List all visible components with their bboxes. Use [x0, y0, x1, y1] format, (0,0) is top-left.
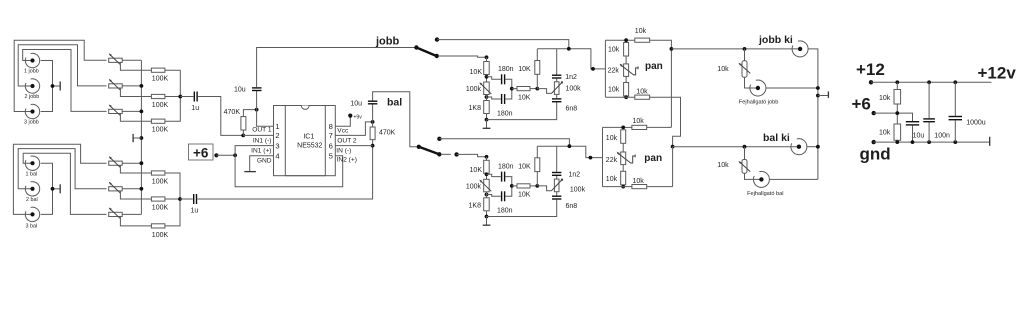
wire 10K to pot jobb: [486, 75, 488, 83]
capacitor 6n8 bal: [552, 196, 577, 210]
junction gnd 100n: [927, 140, 931, 144]
wire +6 rail: [874, 113, 913, 121]
wire 1u bal to IC in2- node: [197, 146, 372, 199]
svg-text:1 jobb: 1 jobb: [24, 69, 39, 75]
svg-text:3 bal: 3 bal: [26, 224, 38, 230]
wire 100K2 bal to sum: [165, 198, 180, 200]
resistor 470K feedback 2: [370, 127, 396, 140]
svg-text:100k: 100k: [570, 187, 586, 194]
svg-text:1: 1: [275, 122, 279, 131]
jack J5 "2 bal": [25, 182, 39, 203]
junction OUT2 node: [371, 120, 375, 124]
junction bypass join bal: [568, 144, 572, 148]
junction bus row1 bal: [140, 161, 144, 165]
resistor 10K upper right jobb: [518, 61, 540, 75]
junction tone input jobb: [485, 55, 489, 59]
terminal +12: [869, 80, 873, 84]
capacitor 100n supply: [923, 82, 950, 142]
wire pot2 bal wiper branch: [120, 191, 151, 199]
svg-text:10K: 10K: [470, 167, 483, 174]
wire out node to treble wiper jobb: [537, 89, 551, 94]
wire pot bottom to 180n bal: [487, 195, 501, 197]
wire pin6 to node: [335, 145, 372, 147]
svg-text:2: 2: [275, 131, 279, 140]
svg-text:100k: 100k: [466, 86, 482, 93]
svg-text:7: 7: [329, 131, 333, 140]
wire treble branch top jobb: [556, 49, 558, 75]
svg-text:10K: 10K: [518, 66, 531, 73]
wire 470K1 bottom lead: [242, 130, 244, 135]
junction pan input jobb: [591, 67, 595, 71]
jack J2 "2 jobb": [25, 79, 40, 100]
junction bypass join jobb: [567, 47, 571, 51]
svg-text:10u: 10u: [913, 132, 925, 139]
wire pot to 6n8 bal: [556, 192, 558, 196]
wire bal bus down: [672, 147, 674, 187]
wire bal ki shield: [807, 146, 818, 148]
switch SW2 lever: [419, 147, 439, 154]
svg-text:Vcc: Vcc: [337, 127, 349, 134]
svg-text:100K: 100K: [152, 76, 169, 83]
svg-text:10K: 10K: [518, 192, 531, 199]
junction bus row2 bal: [140, 187, 144, 191]
wire pan bottom rail jobb: [605, 96, 634, 98]
wire shield to chassis tap jobb: [53, 85, 60, 87]
svg-text:OUT 1: OUT 1: [252, 127, 272, 134]
junction gnd 10u: [911, 140, 915, 144]
junction pan chain bottom bal: [621, 185, 625, 189]
junction OUT1 node: [255, 108, 259, 112]
junction bal ki tap: [671, 145, 675, 149]
wire trimmer top jobb: [744, 49, 746, 61]
wire 10K upper leads jobb: [536, 49, 538, 89]
wire jack3 jobb to pot row1: [14, 40, 106, 111]
wire 10u bal to bal switch: [373, 92, 417, 147]
wire 100K3 bal to sum: [165, 199, 180, 226]
svg-text:10K: 10K: [470, 69, 483, 76]
wire gnd rail: [874, 141, 990, 143]
svg-text:+9v: +9v: [353, 115, 362, 121]
resistor 1K8 tone bal: [469, 198, 490, 211]
capacitor 10u jobb output: [234, 87, 262, 94]
wire shield bus bal jacks: [41, 163, 53, 214]
wire pot1 jobb to ground bus: [122, 59, 141, 61]
switch SW1 contact upper: [435, 37, 439, 41]
resistor 100K jobb 1: [151, 68, 168, 83]
switch SW1 lever: [416, 48, 436, 57]
junction shield bal: [51, 187, 55, 191]
ground symbol tone bal: [483, 217, 491, 226]
capacitor 1n2 jobb: [552, 74, 577, 81]
svg-text:100K: 100K: [152, 178, 169, 185]
resistor 100K bal 2: [151, 197, 168, 212]
wire pot3 bal wiper branch: [120, 217, 151, 226]
wire bypass jobb: [437, 40, 569, 49]
wire pan top rail jobb: [605, 39, 634, 41]
wire 10K to pot bal: [486, 173, 488, 179]
svg-text:Fejhallgató jobb: Fejhallgató jobb: [739, 99, 779, 105]
junction tone bottom jobb: [485, 118, 489, 122]
jack bal ki: [791, 139, 807, 155]
wire pot3 jobb to ground bus: [122, 110, 141, 112]
svg-text:Fejhallgató bal: Fejhallgató bal: [747, 191, 783, 197]
wire node to 10K jobb: [486, 57, 488, 61]
junction tone out jobb: [535, 87, 539, 91]
wire 10K to out node bal: [530, 185, 537, 187]
svg-text:10k: 10k: [717, 66, 729, 73]
wire tone bottom rail jobb: [487, 102, 557, 119]
wire out2 node to 10u bal: [372, 104, 374, 122]
wire switch to tone input jobb: [438, 56, 487, 57]
potentiometer 100k treble jobb: [552, 81, 582, 94]
svg-text:IN1 (+): IN1 (+): [251, 147, 271, 154]
wire 10u to gnd: [912, 126, 914, 143]
wire jack1 bal to pot row3: [23, 153, 106, 214]
wire 1K8 to bottom node jobb: [486, 114, 488, 120]
junction headphone tap jobb: [743, 47, 747, 51]
capacitor 180n bottom bal: [497, 191, 513, 214]
wire pot to 1K8 jobb: [486, 95, 488, 101]
svg-text:10k: 10k: [606, 176, 618, 183]
svg-text:5: 5: [329, 151, 333, 160]
resistor 100K bal 3: [151, 224, 168, 239]
jack headphone bal: [753, 171, 769, 187]
capacitor 180n bottom jobb: [497, 94, 513, 117]
wire 180n top to mid bal: [505, 177, 512, 186]
wire phone jobb shield: [766, 87, 818, 89]
svg-text:OUT 2: OUT 2: [337, 137, 357, 144]
junction IN2- node: [371, 144, 375, 148]
potentiometer 100k tone bal: [466, 179, 491, 192]
svg-text:10k: 10k: [608, 46, 620, 53]
svg-text:6n8: 6n8: [566, 106, 578, 113]
switch SW2 contact upper: [437, 137, 441, 141]
wire jack2 jobb to pot row2: [18, 45, 106, 86]
wire pan top rail bal: [603, 126, 632, 128]
wire pot3 bal to ground bus end: [122, 213, 141, 215]
wire phone bal shield: [770, 178, 818, 180]
svg-text:GND: GND: [257, 157, 272, 164]
junction tone input bal: [485, 155, 489, 159]
junction +6 divider: [895, 111, 899, 115]
wire shield to chassis tap bal: [53, 188, 60, 190]
svg-text:8: 8: [329, 122, 333, 131]
svg-text:IN2 (+): IN2 (+): [337, 157, 357, 164]
svg-text:6n8: 6n8: [566, 203, 578, 210]
junction tone mid bal: [510, 184, 514, 188]
junction +12 100n: [927, 80, 931, 84]
wire +6 node to pin3: [235, 146, 273, 156]
jack J1 "1 jobb": [24, 53, 40, 74]
wire jobb ki shield: [808, 49, 818, 180]
svg-text:10k: 10k: [879, 95, 891, 102]
switch SW2 contact lower: [437, 152, 441, 156]
wire pot to chain lower jobb: [625, 76, 627, 82]
potentiometer 100k tone jobb: [466, 82, 491, 95]
wire bus to chassis bar mid: [134, 137, 142, 139]
ground symbol tone jobb: [483, 120, 491, 129]
wire bypass bal: [439, 139, 569, 146]
chassis bar mid: [132, 134, 134, 142]
capacitor 10u bal output: [350, 100, 377, 107]
junction +12 1000u: [953, 80, 957, 84]
svg-text:NE5532: NE5532: [297, 143, 322, 150]
jack J3 "3 jobb": [24, 104, 40, 125]
svg-text:bal: bal: [387, 97, 402, 109]
terminal +6: [872, 111, 876, 115]
wire pin8 Vcc to +9v: [335, 116, 350, 127]
junction pot top jobb: [485, 75, 489, 79]
junction gnd 1000u: [953, 140, 957, 144]
wire chain upper to pot jobb: [625, 56, 627, 64]
wire trimmer to phone jack bal: [745, 173, 760, 179]
wire 470K2 bottom lead to pin6 node: [372, 140, 374, 146]
wire 180n bottom to mid bal: [505, 186, 512, 196]
wire node to 10K bal: [486, 157, 488, 161]
wire ground bus vertical: [140, 60, 142, 214]
resistor 10k pan lower jobb: [608, 83, 629, 97]
wire 100K3 jobb to sum: [165, 97, 180, 122]
wire trimmer to phone jack jobb: [745, 77, 756, 88]
capacitor 1u jobb: [191, 92, 199, 113]
junction tone out bal: [535, 184, 539, 188]
svg-text:10u: 10u: [350, 100, 362, 107]
resistor 470K feedback 1: [224, 109, 246, 130]
junction pan chain top bal: [621, 126, 625, 130]
box +6 supply tap: [189, 144, 214, 161]
op-amp IC1 notch: [301, 106, 309, 110]
wire 10K upper leads bal: [536, 146, 538, 186]
wire 1K8 to bottom node bal: [486, 211, 488, 217]
wire pot to 1K8 bal: [486, 192, 488, 198]
resistor 1K8 tone jobb: [469, 101, 490, 114]
junction bus row3 jobb: [140, 110, 144, 114]
resistor 10k divider upper: [879, 90, 901, 105]
wire pot1 bal wiper branch: [120, 165, 151, 173]
wire pot bottom to 180n jobb: [487, 97, 501, 99]
potentiometer P3 jobb (row3): [109, 105, 123, 116]
wire lever stub bal: [441, 153, 451, 155]
potentiometer P1 jobb (row1): [109, 53, 123, 64]
svg-text:1K8: 1K8: [469, 105, 482, 112]
junction summing jobb: [178, 95, 182, 99]
jack jobb ki: [792, 41, 808, 57]
svg-text:pan: pan: [644, 153, 662, 164]
junction pot bottom bal: [485, 193, 489, 197]
junction chassis tap out: [816, 94, 820, 98]
wire 180n bottom to mid jobb: [505, 89, 512, 99]
wire jack2 bal to pot row2: [18, 149, 106, 189]
capacitor 1000u supply: [949, 82, 986, 142]
terminal dot +6: [214, 153, 218, 157]
junction pan chain bottom jobb: [624, 95, 628, 99]
ground symbol IC: [244, 171, 256, 173]
potentiometer P5 bal (row2): [109, 182, 123, 193]
junction shield phone jobb: [816, 86, 820, 90]
wire 1n2 to pot bal: [556, 176, 558, 179]
chassis bar outputs: [827, 91, 829, 98]
potentiometer P6 bal (row3): [109, 208, 123, 219]
junction pot bottom jobb: [485, 95, 489, 99]
svg-text:10k: 10k: [635, 28, 647, 35]
resistor 10k pan upper jobb: [608, 43, 629, 57]
svg-text:10k: 10k: [879, 130, 891, 137]
junction tone bottom bal: [485, 215, 489, 219]
contact dot bal tone input: [454, 152, 458, 156]
svg-text:gnd: gnd: [860, 145, 891, 164]
wire chain upper to pot bal: [622, 143, 624, 152]
svg-text:+6: +6: [193, 146, 209, 161]
wire mid to 10K jobb: [512, 88, 517, 90]
svg-text:10K: 10K: [518, 94, 531, 101]
svg-text:jobb: jobb: [375, 36, 399, 48]
wire 1u jobb to IC in1-: [198, 97, 243, 136]
wire 10K to out node jobb: [530, 88, 537, 90]
svg-text:IN (-): IN (-): [336, 147, 351, 154]
wire 470K1 top lead to out1 node: [243, 110, 256, 117]
resistor 10K mid jobb: [517, 87, 531, 102]
potentiometer 22k pan jobb: [608, 64, 639, 77]
wire +6 to junction: [216, 154, 235, 156]
wire pin4 GND lead: [250, 156, 274, 172]
jack J6 "3 bal": [25, 207, 39, 229]
svg-text:10K: 10K: [518, 163, 531, 170]
svg-text:1n2: 1n2: [565, 74, 577, 81]
wire pot2 bal to ground bus: [122, 188, 141, 190]
jack headphone jobb: [750, 80, 766, 96]
resistor 10k pan bottom bal: [632, 178, 647, 189]
svg-text:1n2: 1n2: [569, 172, 581, 179]
wire pan top to jobb bus: [650, 40, 672, 127]
chassis bar bal inputs: [59, 184, 61, 193]
svg-text:1K8: 1K8: [469, 202, 482, 209]
svg-text:1u: 1u: [191, 105, 199, 112]
wire out node to treble wiper bal: [537, 186, 551, 191]
svg-text:100K: 100K: [152, 232, 169, 239]
svg-text:10k: 10k: [717, 162, 729, 169]
junction gnd divider: [895, 140, 899, 144]
wire pot1 jobb wiper branch: [120, 62, 151, 70]
svg-text:22k: 22k: [608, 67, 620, 74]
svg-text:IN1 (-): IN1 (-): [253, 137, 272, 144]
svg-text:2 jobb: 2 jobb: [25, 94, 40, 100]
svg-text:1u: 1u: [191, 208, 199, 215]
resistor 10k divider lower: [879, 124, 901, 140]
svg-text:1 bal: 1 bal: [26, 172, 38, 178]
capacitor 10u supply: [906, 121, 925, 139]
svg-text:3: 3: [275, 141, 279, 150]
svg-text:10k: 10k: [608, 86, 620, 93]
wire IN1- to pin2: [243, 134, 273, 136]
svg-text:10k: 10k: [636, 88, 648, 95]
wire pan bottom to bal bus: [650, 97, 681, 146]
wire out1 node to pin1: [257, 110, 274, 127]
svg-text:180n: 180n: [497, 110, 513, 117]
wire out1 node to 10u: [256, 91, 258, 110]
svg-text:100K: 100K: [152, 204, 169, 211]
svg-text:2 bal: 2 bal: [26, 197, 38, 203]
svg-text:100n: 100n: [934, 132, 950, 139]
capacitor 6n8 jobb: [552, 98, 577, 112]
wire jobb ki line: [671, 48, 798, 50]
wire tone out line jobb: [537, 49, 605, 69]
potentiometer 100k treble bal: [552, 179, 586, 194]
junction +12 divider: [895, 80, 899, 84]
capacitor 180n top jobb: [498, 66, 514, 84]
wire sum to 1u jobb: [180, 96, 193, 98]
pan block jobb left rail: [604, 40, 606, 97]
svg-text:22k: 22k: [606, 157, 618, 164]
wire jack1 jobb to pot row3: [23, 50, 107, 112]
svg-text:100K: 100K: [152, 127, 169, 134]
junction +6 node: [233, 153, 237, 157]
capacitor 1u bal: [191, 194, 199, 215]
wire pot to 6n8 jobb: [556, 94, 558, 98]
resistor 10K upper right bal: [518, 158, 540, 172]
wire bal ki line: [673, 146, 797, 148]
svg-text:6: 6: [329, 141, 333, 150]
svg-text:+6: +6: [852, 95, 871, 114]
svg-text:IC1: IC1: [303, 133, 314, 140]
junction IN1- node: [241, 134, 245, 138]
wire pot top to 180n bal: [487, 174, 501, 176]
svg-text:470K: 470K: [224, 109, 241, 116]
wire tone bottom rail bal: [487, 200, 557, 217]
wire 1n2 to pot jobb: [556, 79, 558, 82]
resistor 10k pan upper bal: [606, 130, 626, 144]
wire jack3 bal to pot row1: [13, 144, 106, 214]
capacitor 180n top bal: [498, 164, 514, 182]
junction shield jobb: [51, 84, 55, 88]
terminal dot +9v: [348, 114, 352, 118]
terminal gnd: [872, 140, 876, 144]
wire pin7 OUT2 to node: [335, 122, 372, 135]
resistor 10K mid bal: [517, 184, 531, 199]
svg-text:10k: 10k: [633, 118, 645, 125]
junction pot top bal: [485, 172, 489, 176]
wire tone out line bal: [537, 146, 602, 157]
wire 100K1 bal to sum: [165, 173, 180, 199]
junction pan input bal: [589, 156, 593, 160]
wire pot2 jobb to ground bus: [122, 85, 141, 87]
switch SW1 contact lower: [435, 54, 439, 58]
capacitor 1n2 bal: [552, 172, 580, 179]
svg-text:180n: 180n: [497, 208, 513, 215]
resistor 10K tone top jobb: [470, 62, 490, 77]
resistor 100K bal 1: [151, 171, 168, 186]
potentiometer P2 jobb (row2): [109, 79, 123, 90]
wire pot top to 180n jobb: [487, 77, 501, 80]
wire to chassis bar out: [818, 95, 829, 97]
wire 100K1 jobb to sum: [165, 70, 180, 96]
junction headphone tap bal: [743, 145, 747, 149]
potentiometer 22k pan bal: [606, 152, 635, 165]
svg-text:+12: +12: [856, 60, 885, 79]
trimmer 10k headphone bal: [717, 160, 750, 174]
svg-text:jobb ki: jobb ki: [758, 34, 793, 46]
wire pan bottom bal joins bal bus: [647, 186, 673, 188]
resistor 100K jobb 3: [151, 119, 168, 134]
svg-text:100K: 100K: [152, 102, 169, 109]
junction tone mid jobb: [510, 87, 514, 91]
svg-text:180n: 180n: [498, 66, 514, 73]
resistor 100K jobb 2: [151, 94, 168, 109]
junction bal ki shield: [816, 145, 820, 149]
wire shield bus jobb jacks: [41, 61, 53, 112]
wire pan bottom rail bal: [603, 186, 632, 188]
svg-text:4: 4: [275, 151, 279, 160]
junction bus ground tap: [140, 136, 144, 140]
